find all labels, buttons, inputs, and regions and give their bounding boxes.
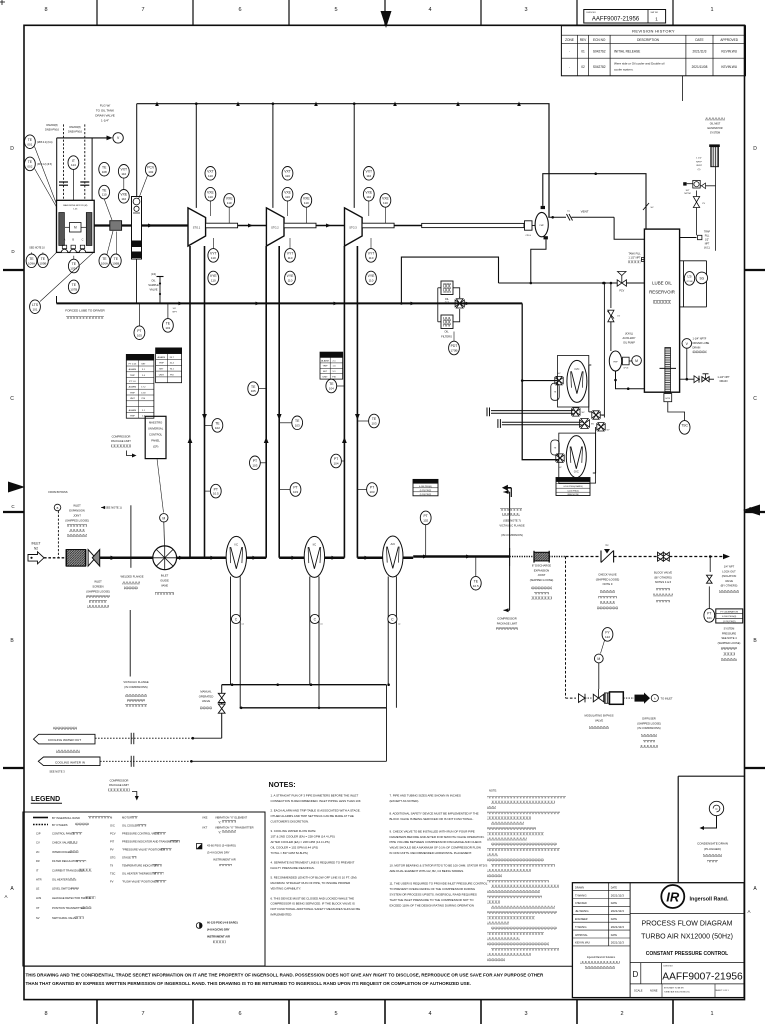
svg-text:ELIMINATOR: ELIMINATOR [707,127,722,130]
confidential statement strip [24,966,572,986]
svg-text:SEE NOTE 4: SEE NOTE 4 [721,636,737,640]
flow arrow shaft [248,224,253,228]
svg-text:102: 102 [423,519,428,523]
svg-text:DRAIN: DRAIN [693,346,701,349]
svg-text:BY INGERSOLL RAND: BY INGERSOLL RAND [52,816,80,820]
svg-text:(1.20) PSI(2): (1.20) PSI(2) [420,494,432,496]
wire stage1 suction duct [188,246,193,558]
svg-text:110: 110 [121,172,126,176]
instrument bubble PT duct5 [367,483,378,497]
label compressor package limit bottom [108,779,139,801]
instrument bubble TE-107B [68,280,79,294]
svg-text:VXE: VXE [382,197,390,201]
shaft stub after STG.3 [362,223,394,228]
actuator M for bypass valve [594,654,603,689]
legend entries column 2 [110,816,180,884]
wire stage3 discharge duct [355,246,360,558]
svg-text:N2: N2 [34,547,38,551]
wire condensate drain AC [388,577,396,708]
welded flange mark [101,505,144,589]
svg-text:LE: LE [36,887,39,891]
svg-text:(XXXL): (XXXL) [625,333,633,336]
svg-text:PT: PT [253,459,257,463]
svg-text:VXE: VXE [303,197,311,201]
svg-text:10.5: 10.5 [213,492,219,496]
svg-text:EXPANSION: EXPANSION [69,509,85,513]
svg-text:4. SEPARATE INSTRUMENT LINE IS: 4. SEPARATE INSTRUMENT LINE IS REQUIRED … [271,861,355,865]
svg-text:A/C: A/C [390,542,395,546]
svg-text:M: M [74,226,77,230]
label oil filters [441,330,452,339]
svg-text:VXE: VXE [226,197,234,201]
svg-text:VYE: VYE [210,274,218,278]
svg-text:2021/11/3: 2021/11/3 [611,925,624,929]
motor cable conduits (dashed) [45,123,89,200]
svg-text:INLET: INLET [94,580,102,584]
legend box [23,796,265,966]
svg-text:(EXCEPT AS NOTED).: (EXCEPT AS NOTED). [390,799,420,803]
svg-text:GUIDE: GUIDE [160,579,169,583]
svg-text:1/4" NPT: 1/4" NPT [724,565,735,569]
svg-text:110: 110 [285,174,290,178]
svg-text:CONTROL PANEL: CONTROL PANEL [52,832,75,836]
instrument bubble TE-101 [163,319,174,333]
svg-text:NOTES 4 & 6: NOTES 4 & 6 [655,580,672,584]
svg-text:VICTAULIC FLANGE: VICTAULIC FLANGE [499,523,525,527]
svg-text:(ISOLATION: (ISOLATION [722,574,737,578]
svg-text:PCV: PCV [147,166,155,170]
svg-text:110: 110 [211,256,216,260]
svg-text:CHECKED: CHECKED [575,902,587,905]
svg-text:PT CALIBRATION: PT CALIBRATION [130,357,151,360]
svg-text:SYSTEM: SYSTEM [724,627,735,631]
title block title cell [641,920,733,957]
switching valve SV O/C2 [556,454,564,469]
svg-text:VALVE: VALVE [202,699,210,703]
wire to bypass valve [585,697,592,699]
svg-text:UNIT: UNIT [159,374,165,376]
svg-text:REVISION HISTORY: REVISION HISTORY [632,28,675,33]
wire TE-103 stem [279,422,291,424]
svg-text:1 1/2" NPT: 1 1/2" NPT [628,257,641,260]
intercooler I/C2 [304,536,324,577]
flow arrow before IC2 [292,556,297,560]
svg-text:108: 108 [102,170,107,174]
svg-text:(1.25) PSI(2): (1.25) PSI(2) [723,621,736,623]
thermostat TSC [668,402,685,422]
svg-text:SEE NOTE 10: SEE NOTE 10 [29,247,45,250]
wire PT-103b stem [279,489,290,491]
notes chinese column [487,789,566,962]
svg-text:TE: TE [28,160,33,164]
wire PT duct5 stem [357,489,366,491]
svg-text:S042762: S042762 [593,49,606,53]
svg-text:ALARM: ALARM [129,409,137,412]
svg-text:DRAIN: DRAIN [720,380,728,383]
bypass reducer flag [579,694,586,703]
svg-text:(SHIPPED LOOSE): (SHIPPED LOOSE) [718,641,741,645]
wire vibration stems stage2 [288,201,307,223]
svg-text:"FLOW VALVE" POSITIONER: "FLOW VALVE" POSITIONER [122,880,158,884]
svg-text:NOTES:: NOTES: [269,780,296,789]
svg-text:VICTAULIC FLANGE: VICTAULIC FLANGE [123,680,149,684]
instrument bubble TE-001 [25,135,36,149]
svg-text:OIL COOLER = 102 GPM (6.44 LPS: OIL COOLER = 102 GPM (6.44 LPS) [271,846,319,850]
wire VYT stem stage3 [370,238,372,249]
wire aux pump to reservoir bottom [614,371,644,390]
svg-text:PSI: PSI [170,374,174,376]
wire reservoir drain [680,376,700,383]
svg-text:T.WANG: T.WANG [575,893,587,897]
svg-text:TE: TE [295,419,300,423]
leader LTS-101 to motor [40,253,93,302]
svg-text:1-1/4": 1-1/4" [101,119,109,123]
wire vent line to oil tank drain [57,136,113,201]
svg-text:170B: 170B [450,349,457,353]
svg-text:002: 002 [27,165,32,169]
svg-text:101: 101 [707,616,712,620]
svg-text:NOTE:: NOTE: [489,789,497,793]
leader TE-106 to coupling [107,231,117,254]
svg-text:COMPRESSOR: COMPRESSOR [112,435,131,439]
svg-text:110: 110 [285,195,290,199]
svg-text:TOTAL = 837 GPM 52.8LPS): TOTAL = 837 GPM 52.8LPS) [271,851,308,855]
switching valve cluster SV [572,398,610,440]
svg-text:8" DISCHARGE: 8" DISCHARGE [532,564,551,568]
transfer valve oil filters [455,297,464,309]
svg-text:FROM BYPASS: FROM BYPASS [48,490,67,494]
svg-text:001: 001 [27,142,32,146]
svg-text:TII: TII [110,864,113,868]
instrument bubble TE-106A [99,254,110,268]
svg-text:JOINT: JOINT [73,514,81,518]
svg-text:I/C: I/C [36,850,39,854]
wire manifold drop to stage 3 [353,104,355,208]
svg-text:RESERVOIR: RESERVOIR [649,290,675,295]
motor M aux pump [629,356,641,366]
svg-text:TRIP: TRIP [130,392,136,394]
svg-text:TSC: TSC [681,424,688,428]
svg-text:PMP: PMP [540,225,545,227]
instrument bubble FY-122 [602,628,613,642]
svg-text:VALVE: VALVE [595,718,603,722]
svg-text:FILTERS: FILTERS [441,335,452,339]
coupling CPLG main pump [525,221,536,237]
svg-text:DRAIN VALVE: DRAIN VALVE [95,114,114,118]
svg-text:TE: TE [474,579,479,583]
svg-text:103: 103 [371,422,376,426]
svg-text:1-1/4" NPT: 1-1/4" NPT [717,376,730,379]
instrument bubble VXE2 stage3 [380,194,391,208]
svg-text:IT: IT [72,159,75,163]
svg-text:NPTF: NPTF [696,161,702,163]
svg-text:OIL HEATER: OIL HEATER [52,878,68,882]
svg-text:PT: PT [334,457,338,461]
svg-text:PCV: PCV [619,290,624,293]
wire aux pump circuit vertical [603,282,606,415]
svg-text:NOT FUNCTIONAL ADDITIONAL SAFE: NOT FUNCTIONAL ADDITIONAL SAFETY MEASURE… [271,907,361,911]
wire oil vent loop [400,257,498,305]
svg-text:CHECK VALVE: CHECK VALVE [598,573,617,577]
svg-text:8. ADDITIONAL SAFETY DEVICE MU: 8. ADDITIONAL SAFETY DEVICE MUST BE IMPL… [390,811,479,815]
svg-text:POSITION TRANSMITTER: POSITION TRANSMITTER [52,906,85,910]
svg-text:COMPR VIB: COMPR VIB [324,354,338,357]
wire bypass dashed [566,557,577,699]
svg-text:(SHIPPED LOOSE): (SHIPPED LOOSE) [65,519,89,523]
svg-text:PT: PT [370,486,374,490]
svg-text:VXE: VXE [284,190,292,194]
svg-text:BY OTHERS: BY OTHERS [52,823,68,827]
svg-text:VXT: VXT [284,170,291,174]
svg-text:STG.2: STG.2 [271,225,279,229]
svg-text:7: 7 [141,7,144,13]
inlet screen [88,550,100,567]
svg-text:SET: SET [323,371,328,373]
main oil pump PMP [535,206,548,240]
svg-text:(SEE NOTE 7): (SEE NOTE 7) [503,519,521,523]
cooling water supply bar to oil coolers [487,408,573,417]
svg-text:103: 103 [369,490,374,494]
wire PT-102 stem [425,525,427,557]
inlet flag N2 [28,542,44,564]
svg-text:PIPE VOLUME BETWEEN COMPRESSOR: PIPE VOLUME BETWEEN COMPRESSOR DISCHARGE… [390,840,482,844]
wire stage3 suction duct [342,246,347,558]
shaft stage2 to stage3 [316,225,345,227]
instrument bubble PT-103b duct3 [290,483,301,497]
svg-text:VXE: VXE [365,190,373,194]
svg-text:(SHIPPED LOOSE): (SHIPPED LOOSE) [596,577,620,581]
svg-text:C/P: C/P [36,832,41,836]
wire TE discharge stem [475,557,477,577]
svg-text:ALARM: ALARM [129,386,137,389]
svg-text:DWG NO: DWG NO [587,12,597,14]
svg-text:OIL: OIL [444,330,449,334]
svg-text:OIL MIST: OIL MIST [710,123,721,126]
svg-text:TRIP: TRIP [323,366,329,368]
wire cooling water out header [222,683,390,686]
wire forced lube oil header [57,296,523,305]
thermometer TII O/C2 [551,440,559,455]
svg-text:TE: TE [102,188,107,192]
svg-text:TRIP: TRIP [130,375,136,377]
title block drawing number row [630,963,744,998]
svg-text:(BY OTHERS): (BY OTHERS) [654,575,671,579]
wire discharge after joint [549,556,565,558]
label block valve [653,571,673,603]
condensate trap AC [388,614,401,625]
svg-text:110: 110 [304,201,309,205]
wire pump discharge to reservoir top [543,172,646,229]
svg-text:FILTER REGULATOR: FILTER REGULATOR [52,859,78,863]
leader PCV-102 to gearbox valve [139,176,148,200]
instrument bubble VXE2 stage2 [301,194,312,208]
instrument bubble VYT stage3 [366,249,377,263]
instrument bubble PT-101 [704,609,715,623]
svg-text:110: 110 [227,201,232,205]
svg-text:COMPRESSOR IS BEING SERVICED.: COMPRESSOR IS BEING SERVICED. IF THE BLO… [271,902,355,906]
oil sample valve [148,273,163,303]
svg-text:1/2": 1/2" [705,240,709,242]
instrument bubble VYE stage2 [285,271,296,285]
svg-text:ARE DUAL ELEMENT WITH A2, B2,: ARE DUAL ELEMENT WITH A2, B2, C2 BEING S… [390,869,465,873]
svg-text:VYT: VYT [368,252,375,256]
wire PT-105 stem [205,490,211,492]
wire VYT stem stage1 [212,238,214,249]
instrument bubble TE-102 duct1 [212,419,223,433]
instrument bubble TE-104 duct4 [326,379,337,393]
svg-text:110: 110 [208,195,213,199]
svg-text:CPLG: CPLG [623,368,628,370]
wire diffuser outlet [623,693,650,704]
svg-text:60-125 PSIG (4-8 BARG): 60-125 PSIG (4-8 BARG) [207,921,238,925]
svg-text:FV: FV [110,880,114,884]
svg-text:OIL: OIL [151,279,156,283]
table PT calibration mid-right [556,478,590,497]
svg-text:(4-8 KG/CM²) DRY: (4-8 KG/CM²) DRY [207,928,230,932]
instrument bubble VXE stage2 [282,187,293,201]
label condensate drain [697,842,728,863]
bypass silencer [605,693,609,703]
instrument bubble TSC [679,421,690,435]
svg-text:-: - [569,49,570,53]
compressor stage STG.1 [188,208,206,246]
svg-text:5: 5 [334,7,337,13]
svg-text:UNIT: UNIT [322,377,328,379]
wire cooling water out line [95,733,222,744]
svg-text:110: 110 [369,256,374,260]
svg-text:OIL COOLER: OIL COOLER [122,824,138,828]
oil mist eliminator vessel [700,144,720,250]
svg-text:O/C: O/C [110,824,115,828]
svg-text:3. COOLING WATER FLOW RATE:: 3. COOLING WATER FLOW RATE: [271,829,317,833]
label forced lube to driver [65,309,105,319]
svg-text:TEMPERATURE INDICATOR: TEMPERATURE INDICATOR [122,864,157,868]
svg-text:(N.C.): (N.C.) [704,248,710,250]
table compressor lube [156,348,182,383]
svg-text:REV: REV [580,38,587,42]
svg-text:FY: FY [605,631,610,635]
wire stage1 discharge duct [202,246,207,558]
svg-text:DN200(8): DN200(8) [69,125,80,129]
wire manifold drop to gearbox [136,104,138,197]
svg-text:FILL: FILL [705,236,710,238]
svg-text:2021/11/3: 2021/11/3 [611,893,624,897]
svg-text:PT 1.0: PT 1.0 [129,381,136,383]
inlet expansion joint [66,550,85,567]
svg-text:(SEE NOTE): (SEE NOTE) [567,494,579,496]
flag cooling water out [34,727,96,744]
svg-text:7. PIPE AND TUBING SIZES ARE S: 7. PIPE AND TUBING SIZES ARE SHOWN IN IN… [390,794,461,798]
svg-text:VENT: VENT [696,165,702,167]
svg-text:4-160 PSIG(4): 4-160 PSIG(4) [419,486,432,488]
svg-text:DRIVER LUBE: DRIVER LUBE [693,342,710,345]
svg-text:(3-4 KG/CM²) DRY: (3-4 KG/CM²) DRY [207,851,230,855]
svg-text:ALARM: ALARM [321,359,329,362]
svg-text:MOTOR: MOTOR [122,816,132,820]
svg-text:110: 110 [288,279,293,283]
svg-text:PIT: PIT [110,840,115,844]
svg-text:VYE: VYE [287,274,295,278]
svg-text:CUSTOMER'S DISCRETION.: CUSTOMER'S DISCRETION. [271,820,310,824]
svg-text:114: 114 [71,163,76,167]
wire lube header down to oil coolers [521,303,559,459]
wire gearbox drain to lube header [136,259,138,303]
instrument bubble TE discharge [470,576,481,590]
svg-text:FORCED LUBE TO DRIVER: FORCED LUBE TO DRIVER [65,309,105,313]
svg-text:110: 110 [366,195,371,199]
instrument bubble TE-108 [99,162,110,176]
svg-text:TO OIL TANK: TO OIL TANK [96,109,114,113]
svg-text:1: 1 [710,7,713,13]
instrument bubble PT-105 duct1 [210,484,221,498]
svg-text:IN CFM UNITS. RECOMMENDED HORI: IN CFM UNITS. RECOMMENDED HORIZONTAL PLA… [390,851,473,855]
svg-text:CONDENSATE DRAIN: CONDENSATE DRAIN [697,842,728,846]
svg-text:D: D [633,970,639,979]
svg-text:TE: TE [215,422,220,426]
svg-text:TURBO AIR SOLUTIONS LTD.: TURBO AIR SOLUTIONS LTD. [664,991,691,994]
svg-text:(SHIPPED LOOSE): (SHIPPED LOOSE) [530,578,554,582]
svg-text:PSI: PSI [142,398,146,400]
svg-text:TURBO AIR NX12000 (50Hz): TURBO AIR NX12000 (50Hz) [641,934,733,941]
zone revision arrow right edge [743,505,760,516]
svg-text:"X": "X" [218,823,221,825]
svg-text:BLOCK VALVE IS BEING SERVICED: BLOCK VALVE IS BEING SERVICED OR IS NOT … [390,817,474,821]
label to oil tank drain valve [95,104,114,123]
wire manifold drop to stage 1 [195,104,197,208]
instrument bubble PDT-170B [449,341,460,355]
wire TE duct5 stem [357,420,368,422]
instrument bubble TE-109B [38,254,49,268]
zone revision arrow left edge [8,482,25,493]
svg-text:PRESSURE INDICATOR AND TRANSMI: PRESSURE INDICATOR AND TRANSMITTER [122,840,178,844]
victaulic flange mark inlet [123,610,149,707]
oil cooler O/C1 shell [567,360,587,402]
svg-text:WELDED FLANGE: WELDED FLANGE [121,575,144,579]
svg-text:2021/11/3: 2021/11/3 [611,909,624,913]
wire PT-105 lube stem [138,303,140,326]
svg-text:PT: PT [137,329,141,333]
svg-text:Ingersoll Rand.: Ingersoll Rand. [690,897,729,903]
svg-text:(M08 4.2) (9.A): (M08 4.2) (9.A) [37,141,53,144]
svg-text:(SEE NOTE 1): (SEE NOTE 1) [104,505,122,509]
svg-text:2021/11/08: 2021/11/08 [692,65,708,69]
instrument bubble TE-106B [110,254,121,268]
svg-text:CV: CV [617,316,621,318]
svg-text:SCALE: SCALE [634,989,643,993]
svg-text:TE: TE [329,382,334,386]
instrument bubble VYE stage1 [208,271,219,285]
svg-text:MAIN DRIVE MOTOR (M): MAIN DRIVE MOTOR (M) [63,204,87,207]
to inlet tag [651,695,673,702]
wire condensate drain IC1 [231,577,241,708]
svg-text:101: 101 [32,307,37,311]
shaft stage3 to oil pump [394,223,524,227]
svg-text:PRESSURE: PRESSURE [722,631,737,635]
svg-text:M: M [597,657,600,661]
inlet guide vane IGV [153,546,177,570]
svg-text:107B: 107B [70,288,77,292]
svg-text:PSI: PSI [332,377,336,379]
label discharge expansion joint [530,564,554,600]
svg-text:TE: TE [28,138,33,142]
svg-text:103: 103 [252,463,257,467]
wire cooling water in header [240,685,387,709]
svg-text:I/C: I/C [235,543,239,547]
svg-text:"PRESSURE VALVE" POSITIONER: "PRESSURE VALVE" POSITIONER [122,848,165,852]
svg-text:2021/11/3: 2021/11/3 [693,49,707,53]
svg-text:VXE: VXE [207,190,215,194]
svg-text:ZONE: ZONE [565,38,574,42]
